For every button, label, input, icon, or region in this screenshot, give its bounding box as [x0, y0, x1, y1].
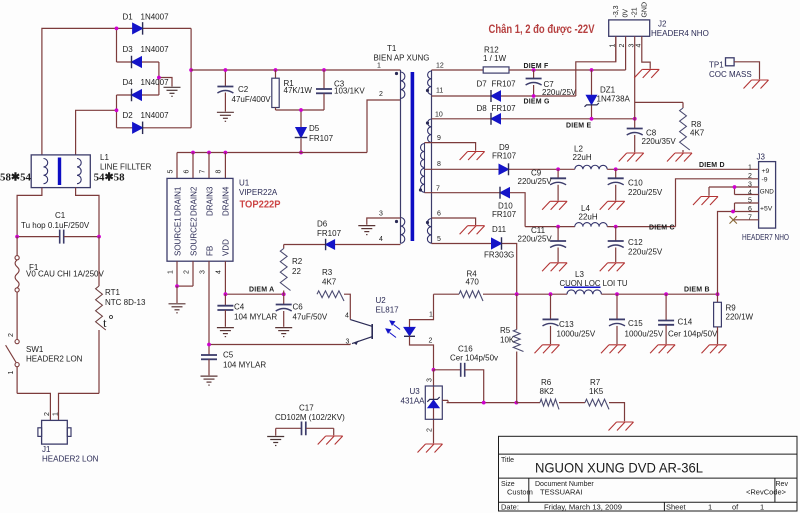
capacitor C6 47uF/50V	[275, 294, 292, 336]
svg-text:1: 1	[610, 44, 617, 48]
svg-text:U1: U1	[239, 179, 250, 188]
svg-text:of: of	[732, 503, 739, 512]
svg-text:D5: D5	[309, 124, 320, 133]
svg-text:4: 4	[345, 313, 349, 320]
svg-text:22uH: 22uH	[579, 213, 598, 222]
svg-text:8: 8	[216, 170, 223, 174]
svg-text:FR107: FR107	[317, 229, 342, 238]
capacitor C8 220u/35V	[619, 119, 644, 162]
wire to J1	[17, 393, 99, 420]
svg-text:NTC 8D-13: NTC 8D-13	[105, 298, 146, 307]
node B (DIEM B)	[549, 292, 720, 296]
wire main HV rail	[191, 69, 400, 71]
capacitor C17 CD102M	[276, 422, 334, 436]
capacitor C1 Tu hop 0.1uF/250V	[17, 230, 99, 244]
svg-text:C13: C13	[559, 320, 574, 329]
capacitor C4 104 MYLAR	[217, 294, 234, 336]
svg-text:-9: -9	[762, 177, 768, 184]
switch SW1 HEADER2 LON	[6, 340, 20, 394]
capacitor C12 220u/25V	[600, 227, 625, 272]
svg-text:1: 1	[52, 412, 59, 416]
svg-text:1000u/25V: 1000u/25V	[557, 330, 596, 339]
svg-text:Chân 1, 2 đo được -22V: Chân 1, 2 đo được -22V	[489, 24, 595, 36]
resistor R8 4K7	[635, 102, 692, 161]
svg-text:3: 3	[427, 378, 434, 382]
node C1 junctions	[15, 235, 101, 239]
wire T1 pin2 to drain bus	[367, 100, 401, 153]
svg-text:2: 2	[619, 44, 626, 48]
diode D4 1N4007	[117, 89, 159, 102]
wire DIEM C to J3 pin2	[676, 179, 759, 227]
svg-text:R3: R3	[322, 268, 333, 277]
svg-text:U2: U2	[376, 296, 387, 305]
svg-text:431AA: 431AA	[401, 397, 426, 406]
wire J3 pin3/4 ground net	[709, 185, 759, 196]
svg-text:J2: J2	[658, 20, 667, 29]
J2 net labels	[613, 2, 648, 18]
diode U2 LED	[404, 294, 434, 370]
svg-text:47K/1W: 47K/1W	[284, 86, 313, 95]
svg-text:R2: R2	[292, 257, 303, 266]
svg-text:R5: R5	[500, 326, 511, 335]
svg-text:L3: L3	[575, 270, 584, 279]
svg-text:Sheet: Sheet	[666, 503, 687, 512]
svg-text:DRAIN1: DRAIN1	[174, 186, 183, 216]
svg-text:1 / 1W: 1 / 1W	[483, 54, 507, 63]
diode D3 1N4007	[117, 56, 159, 69]
svg-text:Friday, March 13, 2009: Friday, March 13, 2009	[544, 503, 622, 512]
svg-text:10K: 10K	[500, 336, 515, 345]
diode DZ1 1N4738A	[585, 70, 599, 119]
svg-text:220u/35V: 220u/35V	[642, 137, 677, 146]
node TP1 COC MASS	[726, 58, 760, 80]
wire bridge right rail	[190, 28, 192, 127]
svg-text:-3,3: -3,3	[613, 5, 620, 17]
svg-text:V0 CAU CHI 1A/250V: V0 CAU CHI 1A/250V	[26, 270, 104, 279]
inductor L2 22uH	[558, 165, 759, 169]
wire DIEM G riser to J2 pin1	[576, 36, 616, 96]
svg-text:7: 7	[436, 185, 440, 192]
svg-text:FR107: FR107	[309, 134, 334, 143]
node bridge junctions	[115, 27, 193, 113]
svg-text:1: 1	[429, 312, 433, 319]
svg-text:VDD: VDD	[222, 239, 231, 256]
fuse F1 VO CAU CHI	[15, 237, 19, 340]
op-amp U1 VIPER22A TOP222P	[167, 153, 233, 262]
svg-text:470: 470	[466, 278, 480, 287]
svg-text:C16: C16	[458, 345, 473, 354]
ground TP1	[744, 80, 769, 89]
svg-text:HEADER2 LON: HEADER2 LON	[26, 355, 83, 364]
resistor R2 22	[280, 245, 290, 295]
wire U1 FB down	[208, 261, 210, 344]
svg-text:R9: R9	[726, 304, 737, 313]
inductor L4 22uH	[525, 223, 675, 227]
svg-text:DIEM B: DIEM B	[684, 287, 710, 294]
svg-text:Custom: Custom	[507, 488, 533, 497]
node E (DIEM E)	[590, 117, 637, 121]
label CUON LOC LOI TU	[560, 279, 628, 288]
svg-text:2: 2	[379, 91, 383, 98]
svg-text:NGUON XUNG DVD AR-36L: NGUON XUNG DVD AR-36L	[535, 460, 703, 476]
node C16 junction	[432, 368, 436, 372]
connector J3 HEADER7 NHO	[759, 162, 776, 229]
node A (DIEM A)	[224, 292, 286, 296]
svg-text:3: 3	[346, 339, 350, 346]
wire ref rail	[516, 402, 540, 404]
svg-text:BIEN AP XUNG: BIEN AP XUNG	[374, 54, 430, 63]
J3 pin7 no-connect	[730, 216, 759, 223]
resistor R9 220/1W	[702, 294, 727, 353]
svg-text:FR107: FR107	[492, 104, 517, 113]
svg-text:R7: R7	[590, 378, 601, 387]
node G (DIEM G)	[532, 94, 536, 98]
svg-text:1K5: 1K5	[589, 387, 604, 396]
svg-text:Date:: Date:	[501, 503, 519, 512]
ground U3	[418, 444, 443, 453]
svg-text:1: 1	[377, 63, 381, 70]
svg-text:VIPER22A: VIPER22A	[239, 188, 278, 197]
svg-text:104 MYLAR: 104 MYLAR	[223, 361, 266, 370]
node D11/R5 junction	[515, 292, 519, 296]
svg-text:D2: D2	[123, 111, 134, 120]
svg-text:U3: U3	[410, 387, 421, 396]
svg-text:J1: J1	[42, 445, 51, 454]
svg-text:2: 2	[8, 333, 15, 337]
transistor U2 EL817 opto	[350, 320, 372, 345]
ground C17 right	[318, 436, 343, 445]
svg-text:47uF/400V: 47uF/400V	[232, 95, 272, 104]
svg-text:DIEM C: DIEM C	[649, 225, 675, 232]
svg-text:C1: C1	[55, 211, 66, 220]
svg-text:7: 7	[748, 215, 752, 222]
svg-text:D7: D7	[477, 80, 488, 89]
svg-text:5: 5	[168, 170, 175, 174]
wire AC1 from line filter to bridge	[42, 28, 117, 154]
svg-text:4: 4	[635, 44, 642, 48]
svg-text:4: 4	[748, 190, 752, 197]
svg-text:220u/25V: 220u/25V	[628, 248, 663, 257]
inductor L3 CUON LOC LOI TU	[567, 290, 718, 294]
svg-text:1000u/25V: 1000u/25V	[625, 330, 664, 339]
capacitor C7 220u/25V	[526, 70, 542, 96]
capacitor C15 1000u/25V	[601, 294, 626, 353]
svg-text:47uF/50V: 47uF/50V	[293, 313, 328, 322]
svg-text:3: 3	[200, 270, 207, 274]
svg-text:220/1W: 220/1W	[726, 313, 754, 322]
svg-text:Tu hop 0.1uF/250V: Tu hop 0.1uF/250V	[21, 221, 90, 230]
transistor U3 431AA	[425, 370, 442, 444]
svg-text:R6: R6	[541, 378, 552, 387]
diode D11 FR303G	[432, 237, 517, 294]
svg-text:C14: C14	[678, 318, 693, 327]
svg-text:1: 1	[708, 503, 712, 512]
wire D3-D4 anode rail	[158, 62, 160, 95]
svg-text:C15: C15	[628, 319, 643, 328]
svg-text:4K7: 4K7	[690, 129, 705, 138]
svg-text:T1: T1	[387, 44, 397, 53]
capacitor C5 104 MYLAR	[201, 345, 218, 386]
svg-text:C5: C5	[223, 351, 234, 360]
svg-text:HEADER4 NHO: HEADER4 NHO	[651, 29, 709, 38]
wire U1 sources tie	[177, 261, 193, 286]
svg-text:1N4738A: 1N4738A	[597, 95, 631, 104]
svg-text:1: 1	[748, 165, 752, 172]
svg-text:+5V: +5V	[760, 206, 773, 213]
svg-text:2: 2	[429, 338, 433, 345]
resistor R7 1K5	[585, 399, 625, 421]
svg-text:103/1KV: 103/1KV	[334, 87, 365, 96]
svg-text:GND: GND	[760, 189, 774, 196]
diode D9 FR107	[425, 163, 559, 175]
svg-text:FR107: FR107	[492, 152, 517, 161]
svg-text:Cer 104p/50v: Cer 104p/50v	[450, 354, 498, 363]
svg-text:EL817: EL817	[376, 306, 400, 315]
svg-text:DIEM A: DIEM A	[249, 287, 274, 294]
transformer T1 BIEN AP XUNG	[395, 70, 432, 244]
svg-text:GND: GND	[641, 2, 648, 18]
resistor R1 47K/1W	[272, 70, 279, 110]
node C (DIEM C)	[556, 225, 617, 229]
svg-text:COC MASS: COC MASS	[709, 70, 752, 79]
svg-text:D4: D4	[123, 78, 134, 87]
svg-text:LINE FILLTER: LINE FILLTER	[100, 163, 152, 172]
connector J1 HEADER2 LON	[38, 420, 71, 444]
node source junction	[175, 284, 179, 288]
svg-text:C2: C2	[238, 85, 249, 94]
ground T1 pin9	[425, 143, 485, 160]
capacitor C3 103/1KV	[316, 70, 332, 110]
svg-text:RT1: RT1	[105, 288, 121, 297]
thermistor RT1 NTC 8D-13	[96, 237, 106, 394]
svg-text:4: 4	[379, 236, 383, 243]
svg-text:4K7: 4K7	[322, 278, 337, 287]
svg-text:0V: 0V	[623, 9, 630, 18]
svg-text:C17: C17	[299, 404, 314, 413]
node D5 junctions	[299, 108, 303, 154]
resistor R12 1/1W	[432, 67, 626, 73]
wire U1 VDD down	[224, 261, 226, 294]
svg-text:DIEM E: DIEM E	[566, 123, 591, 130]
svg-text:1N4007: 1N4007	[141, 111, 170, 120]
diode D2 1N4007	[117, 122, 192, 135]
svg-text:SOURCE2: SOURCE2	[190, 217, 199, 256]
svg-text:C10: C10	[628, 179, 643, 188]
resistor R3 4K7	[317, 291, 350, 320]
ground C17 left	[267, 437, 284, 446]
wire FB node to opto	[209, 344, 350, 346]
svg-text:HEADER7 NHO: HEADER7 NHO	[742, 233, 789, 242]
svg-text:54✱58: 54✱58	[94, 172, 125, 184]
svg-text:1: 1	[760, 503, 764, 512]
wire U3 ref	[442, 400, 516, 402]
svg-text:D11: D11	[492, 225, 507, 234]
svg-text:3: 3	[628, 44, 635, 48]
capacitor C16 Cer 104p/50v	[434, 363, 484, 403]
svg-text:DRAIN3: DRAIN3	[206, 186, 215, 216]
diode D6 FR107	[284, 239, 401, 250]
svg-text:-21: -21	[631, 7, 638, 17]
svg-text:10: 10	[435, 112, 443, 119]
U2 light arrows	[386, 321, 400, 338]
ground J2 pin4	[634, 69, 659, 78]
svg-text:FR303G: FR303G	[484, 251, 514, 260]
svg-text:1N4007: 1N4007	[141, 13, 170, 22]
svg-text:Cer 104p/50V: Cer 104p/50V	[668, 330, 718, 339]
svg-text:HEADER2 LON: HEADER2 LON	[42, 455, 99, 464]
svg-text:11: 11	[436, 88, 443, 95]
svg-text:DIEM G: DIEM G	[524, 99, 550, 106]
svg-text:DIEM F: DIEM F	[524, 63, 549, 70]
svg-text:TP1: TP1	[709, 61, 724, 70]
svg-text:6: 6	[184, 170, 191, 174]
svg-text:D3: D3	[123, 45, 134, 54]
svg-text:3: 3	[379, 211, 383, 218]
svg-text:CUON LOC LOI TU: CUON LOC LOI TU	[560, 279, 628, 288]
svg-text:8: 8	[437, 161, 441, 168]
diode D10 FR107	[425, 187, 526, 227]
ground J3	[693, 197, 718, 206]
svg-text:8K2: 8K2	[540, 387, 555, 396]
svg-text:SW1: SW1	[26, 345, 44, 354]
svg-text:DRAIN2: DRAIN2	[190, 186, 199, 216]
svg-text:FB: FB	[206, 246, 215, 256]
svg-text:1: 1	[168, 270, 175, 274]
wire R1/C3 bottom	[276, 109, 325, 111]
svg-text:220u/25V: 220u/25V	[518, 235, 553, 244]
capacitor C10 220u/25V	[600, 169, 625, 210]
wire bridge left rail (D4-D2)	[116, 95, 118, 128]
svg-text:2: 2	[184, 270, 191, 274]
svg-text:9: 9	[437, 135, 441, 142]
svg-text:FR107: FR107	[492, 80, 517, 89]
J3 pin labels	[760, 168, 774, 213]
node HV rail junctions	[224, 68, 326, 72]
resistor R4 470	[434, 291, 568, 301]
diode D5 FR107	[295, 110, 308, 153]
svg-text:104 MYLAR: 104 MYLAR	[234, 313, 277, 322]
svg-text:C6: C6	[293, 303, 304, 312]
svg-text:4: 4	[216, 270, 223, 274]
svg-text:58✱54: 58✱54	[0, 172, 31, 184]
node FB junction	[207, 343, 211, 347]
ground T1 pin6	[432, 218, 485, 234]
wire bridge left rail (D1-D3)	[116, 28, 118, 62]
svg-text:DIEM D: DIEM D	[699, 162, 725, 169]
inductor L1 LINE FILLTER	[31, 155, 90, 188]
node F (DIEM F)	[532, 68, 594, 72]
connector J2 HEADER4 NHO	[609, 20, 651, 119]
capacitor C9 220u/25V	[542, 169, 567, 210]
svg-text:L1: L1	[100, 153, 109, 162]
svg-text:22uH: 22uH	[573, 153, 592, 162]
svg-text:+9: +9	[762, 168, 770, 175]
svg-text:D6: D6	[317, 220, 328, 229]
title block	[499, 436, 798, 511]
node D (DIEM D)	[556, 167, 617, 171]
resistor R6 8K2	[540, 399, 585, 409]
diode D7 FR107	[432, 90, 576, 102]
svg-text:DZ1: DZ1	[600, 86, 616, 95]
svg-text:t: t	[103, 315, 107, 330]
capacitor C13 1000u/25V	[535, 294, 560, 353]
svg-text:1: 1	[8, 371, 15, 375]
svg-text:1N4007: 1N4007	[141, 78, 170, 87]
svg-text:TOP222P: TOP222P	[240, 199, 281, 211]
capacitor C11 220u/25V	[542, 227, 567, 272]
svg-text:D1: D1	[123, 13, 134, 22]
svg-text:2: 2	[44, 412, 51, 416]
ground U1 source	[169, 286, 186, 313]
resistor R5 10K	[513, 294, 523, 402]
svg-text:C12: C12	[628, 238, 643, 247]
svg-text:12: 12	[436, 63, 444, 70]
wire L1 outputs	[17, 188, 99, 237]
svg-text:J3: J3	[757, 153, 766, 162]
svg-text:7: 7	[200, 170, 207, 174]
wire J3 pin5/6 +5V net	[731, 203, 759, 213]
node drain bus junctions	[191, 151, 227, 155]
svg-text:C4: C4	[234, 303, 245, 312]
wire drain bus	[177, 152, 367, 154]
svg-text:SOURCE1: SOURCE1	[174, 217, 183, 256]
ground T1 pin3	[358, 218, 400, 235]
svg-text:2: 2	[748, 173, 752, 180]
capacitor C2 47uF/400V	[217, 70, 234, 121]
diode D1 1N4007	[117, 22, 192, 35]
ground R7	[609, 422, 634, 431]
ground bridge center	[159, 78, 181, 97]
capacitor C14 Cer 104p/50V	[650, 294, 675, 353]
svg-text:2: 2	[427, 428, 434, 432]
svg-text:<RevCode>: <RevCode>	[746, 488, 787, 497]
svg-text:220u/25V: 220u/25V	[518, 177, 553, 186]
svg-text:Title: Title	[501, 457, 514, 464]
diode D8 FR107	[432, 113, 635, 125]
svg-text:5: 5	[437, 236, 441, 243]
svg-text:D8: D8	[477, 104, 488, 113]
U1 pin names	[174, 186, 231, 256]
svg-text:DRAIN4: DRAIN4	[222, 186, 231, 216]
svg-text:22: 22	[292, 267, 301, 276]
svg-text:CD102M (102/2KV): CD102M (102/2KV)	[275, 413, 345, 422]
svg-text:FR107: FR107	[492, 210, 517, 219]
node ref junctions	[482, 401, 518, 405]
svg-text:1N4007: 1N4007	[141, 45, 170, 54]
wire AC2 from line filter to bridge	[76, 110, 117, 155]
svg-text:220u/25V: 220u/25V	[628, 188, 663, 197]
svg-text:TESSUARAI: TESSUARAI	[540, 488, 583, 497]
wire +5V riser to J3	[718, 212, 734, 295]
svg-text:6: 6	[437, 211, 441, 218]
